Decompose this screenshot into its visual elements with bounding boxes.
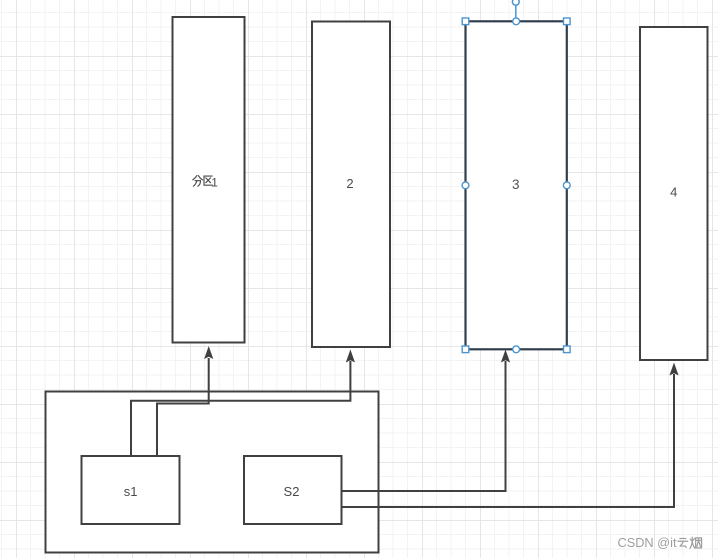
partition box 4 <box>640 27 708 360</box>
svg-text:s1: s1 <box>124 484 138 499</box>
svg-text:CSDN @it: CSDN @it <box>618 535 677 550</box>
svg-text:3: 3 <box>512 177 520 192</box>
inner box S2 <box>244 456 342 524</box>
svg-text:1: 1 <box>211 176 218 190</box>
arrowhead into box2 <box>346 350 355 363</box>
selection corner handles (squares) <box>462 18 570 353</box>
label 分区1 <box>193 176 218 190</box>
wire S2 to box4 <box>342 374 675 507</box>
arrowhead into box4 <box>669 363 678 376</box>
arrowhead into 分区1 <box>204 346 213 359</box>
arrowhead into box3 <box>501 350 510 363</box>
svg-text:2: 2 <box>346 176 353 191</box>
svg-text:S2: S2 <box>284 484 300 499</box>
partition box 2 <box>312 22 390 348</box>
selection rotation handle <box>512 0 519 20</box>
inner box s1 <box>82 456 180 524</box>
watermark CSDN @it云烟 <box>618 535 702 550</box>
selection edge handles (circles) <box>462 18 570 353</box>
outer system box <box>46 392 379 553</box>
partition box 分区1 <box>173 17 245 343</box>
wire S2 to box3 <box>342 361 506 491</box>
svg-text:4: 4 <box>670 185 677 200</box>
partition box 3 (selected) <box>466 21 567 349</box>
wire s1 to box2 <box>131 361 350 456</box>
wire s1 to 分区1 <box>157 358 209 456</box>
